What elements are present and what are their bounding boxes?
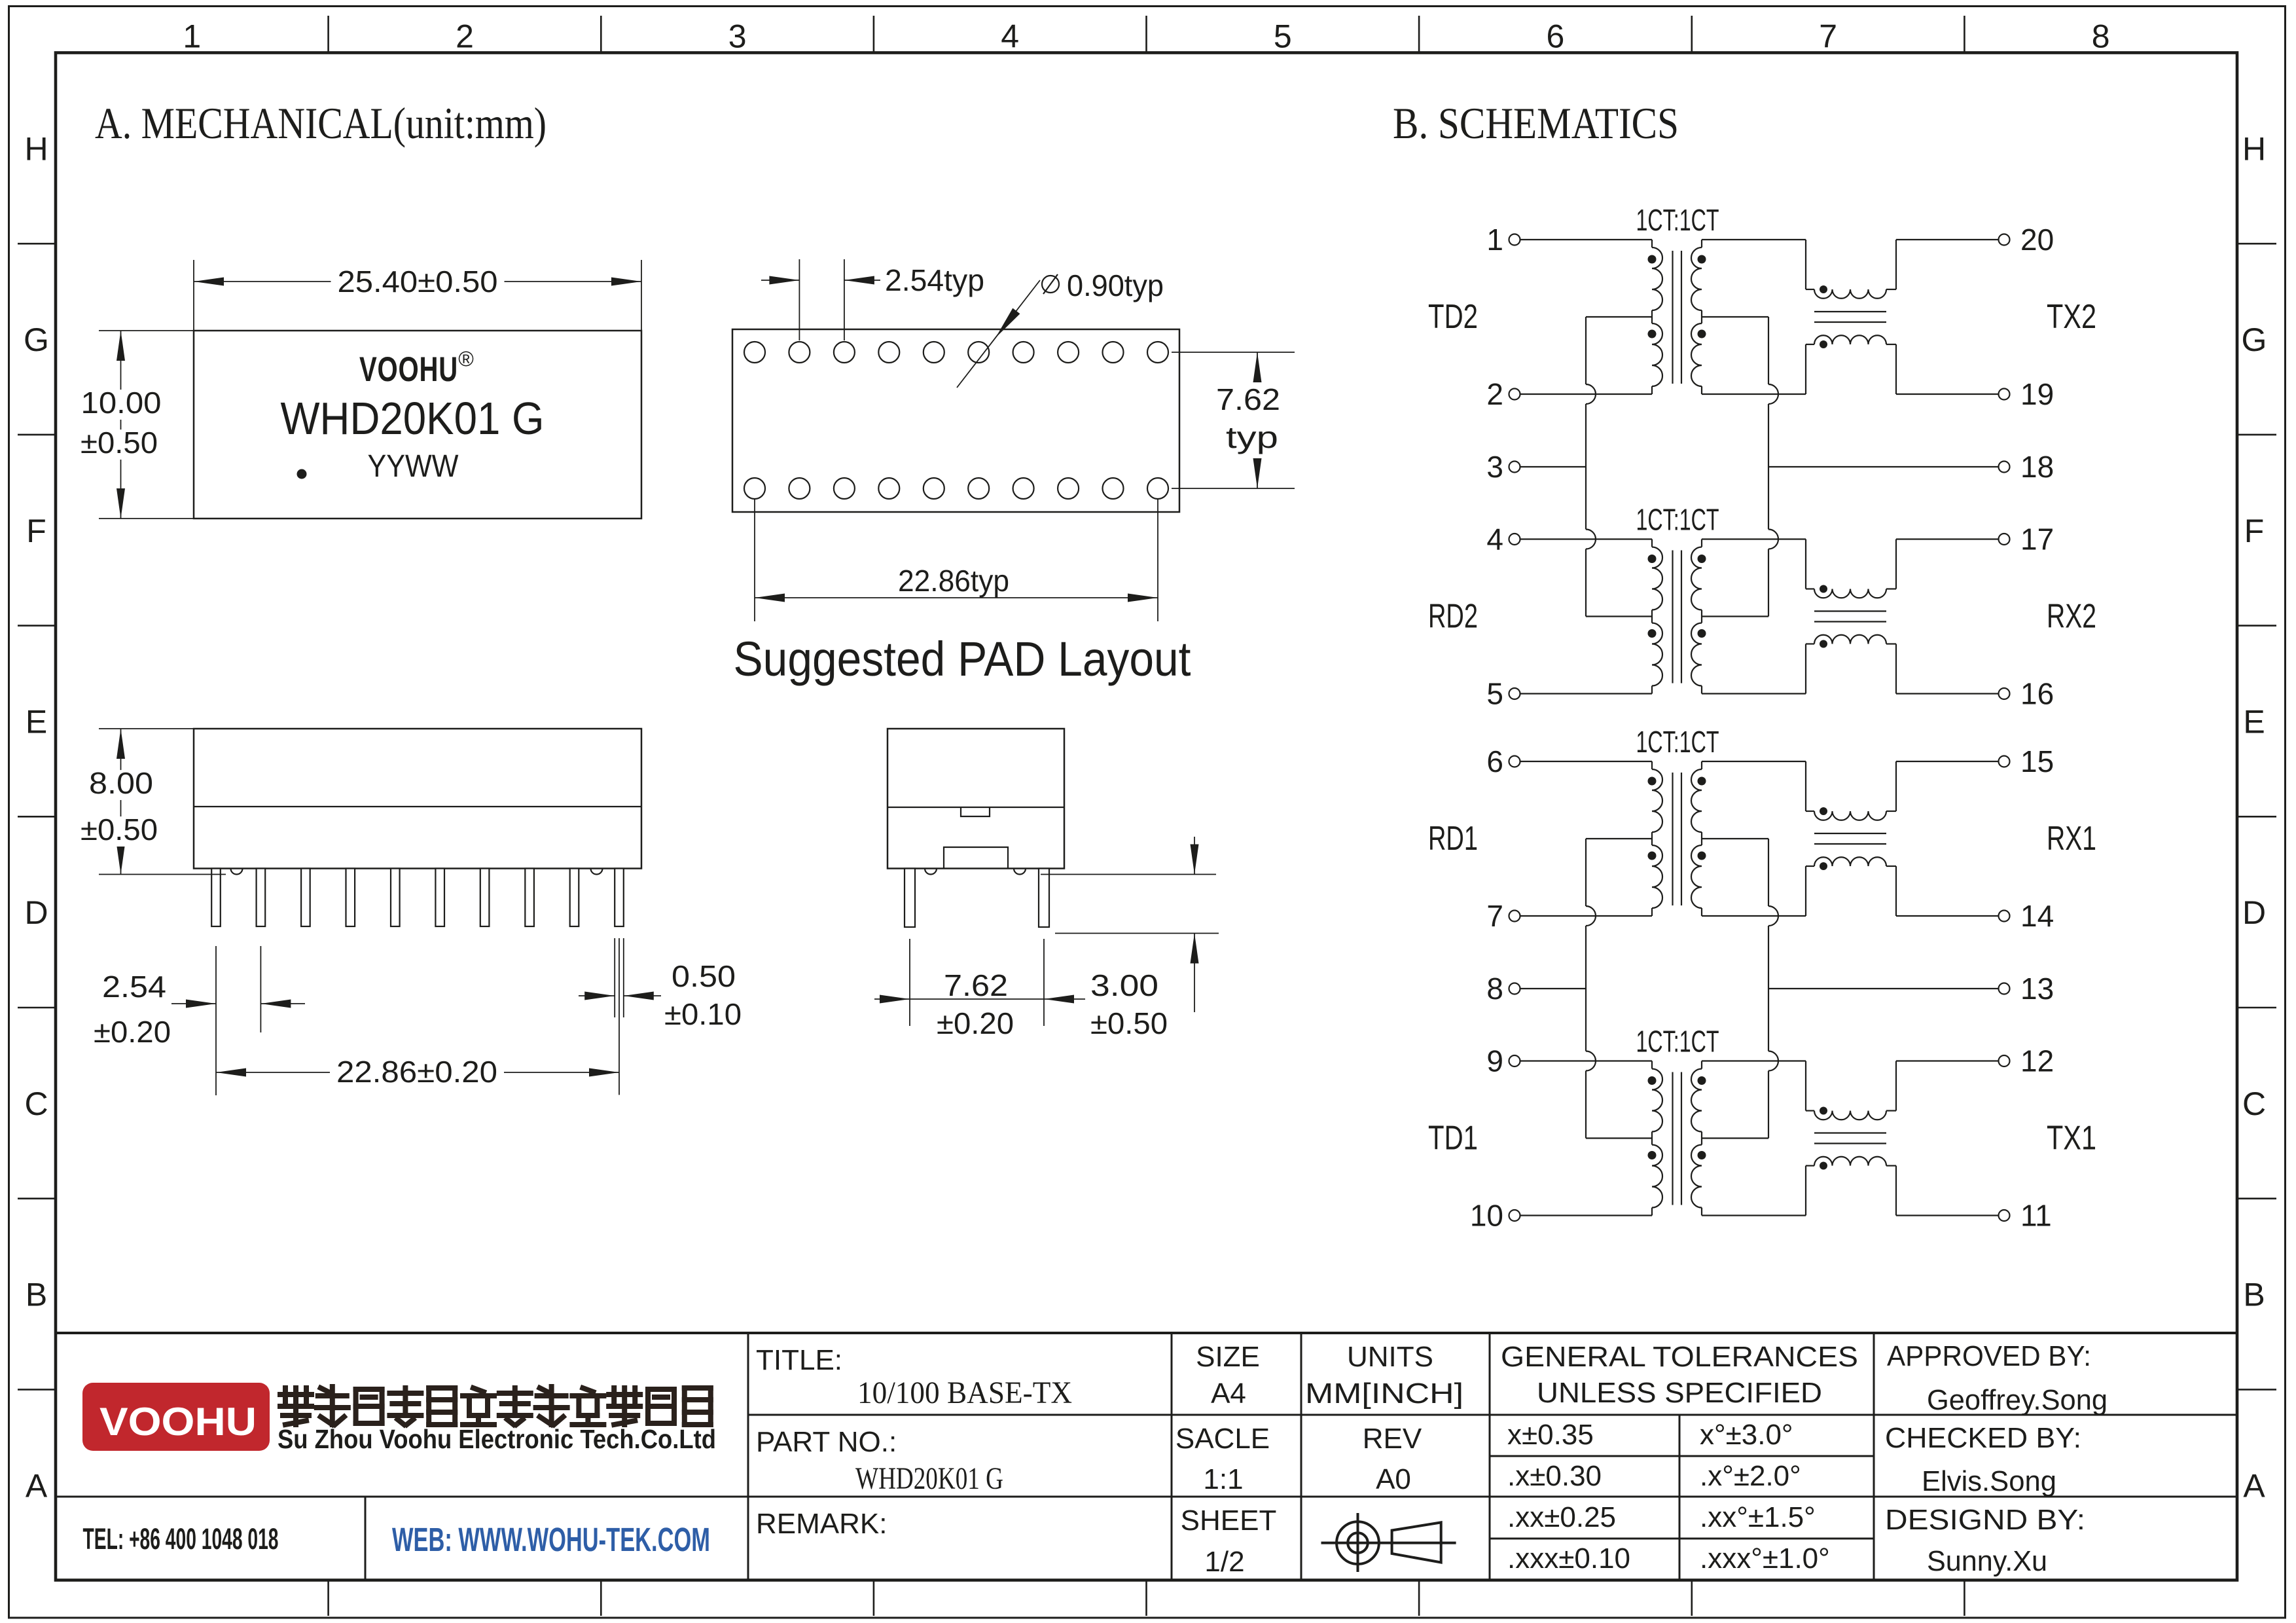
dimension 0.50±0.10 — [579, 995, 615, 996]
svg-text:Sunny.Xu: Sunny.Xu — [1927, 1545, 2047, 1577]
svg-text:0.50: 0.50 — [672, 959, 736, 993]
pin 12 terminal circle — [1999, 1055, 2010, 1067]
wire pin 10 to primary bottom — [1520, 1214, 1653, 1216]
choke core lines — [1814, 833, 1886, 834]
svg-text:G: G — [2242, 321, 2267, 358]
wire choke top to pin 20 — [1886, 289, 1896, 290]
pin 11 terminal circle — [1999, 1210, 2010, 1221]
end view standoff bump right — [1014, 869, 1026, 875]
svg-text:F: F — [2244, 513, 2265, 549]
svg-text:RX1: RX1 — [2047, 820, 2096, 858]
pad holes bottom row — [744, 478, 765, 499]
center-tap bus left (pins 3) — [1585, 317, 1587, 384]
polarity dots primary — [1648, 777, 1657, 786]
primary center tap wire — [1586, 838, 1652, 839]
svg-text:5: 5 — [1274, 18, 1292, 55]
svg-text:VOOHU: VOOHU — [99, 1400, 257, 1444]
secondary lower stub — [1701, 686, 1702, 694]
wire center-tap bus to pin 18 — [1768, 466, 1998, 467]
transformer core lines — [1672, 1072, 1673, 1205]
secondary center tap wire — [1702, 615, 1768, 617]
primary center tap wire — [1586, 615, 1652, 617]
svg-text:6: 6 — [1546, 18, 1564, 55]
svg-text:F: F — [26, 513, 46, 549]
primary winding upper coil of T-RD2 — [1651, 539, 1653, 547]
end view top latch notch — [961, 807, 990, 816]
svg-text:TD1: TD1 — [1428, 1120, 1478, 1158]
svg-text:RX2: RX2 — [2047, 598, 2096, 636]
choke polarity dots — [1820, 285, 1827, 293]
svg-text:REV: REV — [1363, 1423, 1422, 1455]
secondary winding lower coil of T-TD1 — [1691, 1145, 1702, 1208]
svg-text:A0: A0 — [1376, 1463, 1411, 1495]
svg-text:WEB: WWW.WOHU-TEK.COM: WEB: WWW.WOHU-TEK.COM — [392, 1521, 710, 1558]
dimension 2.54±0.20 extension lines — [215, 946, 217, 1095]
svg-text:10/100 BASE-TX: 10/100 BASE-TX — [857, 1376, 1072, 1410]
wire secondary bottom to choke — [1702, 693, 1806, 694]
zone row tick marks (right strip) — [2237, 243, 2276, 245]
svg-text:.xx°±1.5°: .xx°±1.5° — [1700, 1501, 1816, 1533]
pin 3 terminal circle — [1509, 462, 1520, 473]
end view pin near — [905, 869, 915, 928]
dimension 0.50±0.10 extension lines — [614, 938, 615, 1017]
svg-text:±0.20: ±0.20 — [94, 1015, 171, 1049]
dimension 7.62±0.20 — [874, 998, 1085, 1000]
svg-text:17: 17 — [2020, 522, 2054, 556]
side view standoff bump left — [231, 869, 243, 875]
wire pin 8 to center-tap bus — [1520, 988, 1586, 989]
secondary center tap wire — [1702, 838, 1768, 839]
pad holes top row — [744, 342, 765, 363]
pin 6 terminal circle — [1509, 756, 1520, 767]
center-tap bus left (pins 8) — [1585, 839, 1587, 906]
polarity dots secondary — [1698, 555, 1706, 563]
side view pins 1-10 — [211, 869, 221, 927]
TEL/WEB divider — [365, 1497, 367, 1580]
svg-text:.xxx±0.10: .xxx±0.10 — [1507, 1542, 1630, 1575]
svg-text:.xx±0.25: .xx±0.25 — [1507, 1501, 1616, 1533]
secondary winding lower coil of T-RD1 — [1691, 845, 1702, 908]
dimension text ±0.50 — [74, 429, 164, 460]
svg-text:10.00: 10.00 — [81, 386, 162, 420]
svg-text:PART NO.:: PART NO.: — [756, 1426, 897, 1458]
svg-text:MM[INCH]: MM[INCH] — [1305, 1377, 1463, 1410]
primary lower stub — [1651, 686, 1653, 694]
secondary center tap wire — [1702, 316, 1768, 318]
svg-text:1/2: 1/2 — [1204, 1546, 1244, 1578]
svg-text:A: A — [26, 1467, 48, 1504]
common-mode choke upper winding — [1814, 289, 1886, 299]
svg-text:1CT:1CT: 1CT:1CT — [1636, 203, 1719, 237]
svg-text:22.86typ: 22.86typ — [898, 564, 1009, 598]
wire secondary top to choke — [1702, 239, 1806, 240]
end view bottom recess — [944, 847, 1008, 869]
package top view outline — [194, 331, 641, 519]
svg-text:WHD20K01 G: WHD20K01 G — [281, 393, 545, 444]
choke polarity dots — [1820, 1107, 1827, 1115]
dimension text 25.40±0.50 — [331, 268, 505, 299]
pin 10 terminal circle — [1509, 1210, 1520, 1221]
svg-text:TEL: +86 400 1048 018: TEL: +86 400 1048 018 — [83, 1522, 279, 1556]
svg-text:SACLE: SACLE — [1175, 1423, 1270, 1455]
svg-text:7: 7 — [1819, 18, 1837, 55]
wire secondary bottom to choke — [1702, 393, 1806, 395]
wire secondary top to choke — [1702, 761, 1806, 762]
choke core lines — [1814, 1132, 1886, 1133]
wire pin 4 to primary top — [1520, 538, 1653, 539]
primary lower stub — [1651, 908, 1653, 916]
svg-text:3: 3 — [1486, 450, 1503, 484]
svg-text:VOOHU: VOOHU — [359, 350, 458, 389]
svg-text:3.00: 3.00 — [1090, 968, 1158, 1002]
secondary lower stub — [1701, 1208, 1702, 1216]
projection symbol crosshair — [1321, 1542, 1456, 1544]
svg-text:RD1: RD1 — [1428, 820, 1478, 858]
choke polarity dots — [1820, 807, 1827, 815]
dimension 2.54typ extension lines — [798, 259, 800, 340]
end view pin far — [1039, 869, 1049, 928]
svg-text:TD2: TD2 — [1428, 298, 1478, 336]
wire hop over pin wire at y=1620.5 (right) — [1768, 1051, 1778, 1071]
dimension text 22.86±0.20 — [330, 1059, 504, 1089]
svg-text:3: 3 — [728, 18, 747, 55]
wire hop over pin wire at y=823.5 — [1586, 530, 1596, 549]
secondary winding upper coil of T-TD1 — [1701, 1061, 1702, 1069]
zone column tick marks (top strip) — [327, 16, 329, 53]
secondary winding lower coil of T-RD2 — [1691, 623, 1702, 686]
svg-text:7.62: 7.62 — [1216, 382, 1280, 416]
pin 13 terminal circle — [1999, 983, 2010, 994]
end view parting line — [888, 807, 1064, 808]
common-mode choke lower winding — [1814, 857, 1886, 866]
svg-text:16: 16 — [2020, 677, 2054, 711]
svg-text:TITLE:: TITLE: — [756, 1344, 842, 1376]
svg-text:±0.50: ±0.50 — [81, 426, 158, 460]
common-mode choke upper winding — [1814, 1111, 1886, 1120]
wire choke bottom to pin 14 — [1886, 866, 1896, 867]
pin 5 terminal circle — [1509, 688, 1520, 699]
dimension 8.00±0.50 extension lines — [99, 728, 194, 729]
diameter symbol ∅ — [1042, 276, 1059, 293]
primary winding lower coil of T-TD1 — [1652, 1145, 1662, 1208]
secondary center connector — [1701, 310, 1702, 323]
common-mode choke lower winding — [1814, 335, 1886, 344]
pin 7 terminal circle — [1509, 911, 1520, 922]
wire choke bottom to pin 11 — [1886, 1165, 1896, 1166]
side view standoff bump right — [591, 869, 603, 875]
polarity dots primary — [1648, 555, 1657, 563]
svg-text:D: D — [24, 894, 48, 931]
svg-text:±0.10: ±0.10 — [664, 997, 742, 1031]
svg-text:1CT:1CT: 1CT:1CT — [1636, 503, 1719, 537]
svg-text:B: B — [26, 1277, 47, 1313]
wire hop over pin wire at y=1399.0 — [1586, 906, 1596, 926]
svg-text:4: 4 — [1486, 522, 1503, 556]
svg-text:C: C — [24, 1085, 48, 1122]
dimension 2.54typ — [761, 280, 799, 281]
primary center connector — [1651, 310, 1653, 323]
svg-text:YYWW: YYWW — [368, 449, 459, 484]
svg-text:A. MECHANICAL(unit:mm): A. MECHANICAL(unit:mm) — [95, 98, 547, 148]
choke core lines — [1814, 311, 1886, 312]
svg-text:B. SCHEMATICS: B. SCHEMATICS — [1393, 98, 1679, 148]
svg-text:2: 2 — [1486, 377, 1503, 411]
common-mode choke upper winding — [1814, 811, 1886, 820]
svg-text:x°±3.0°: x°±3.0° — [1700, 1419, 1793, 1451]
secondary lower stub — [1701, 386, 1702, 394]
svg-text:DESIGND BY:: DESIGND BY: — [1885, 1504, 2085, 1536]
secondary center connector — [1701, 832, 1702, 845]
side view body outline — [194, 729, 641, 869]
svg-text:®: ® — [458, 347, 474, 371]
pin 19 terminal circle — [1999, 389, 2010, 400]
svg-text:0.90typ: 0.90typ — [1067, 268, 1164, 302]
svg-text:22.86±0.20: 22.86±0.20 — [336, 1055, 497, 1089]
wire center-tap bus to pin 13 — [1768, 988, 1998, 989]
svg-text:±0.20: ±0.20 — [937, 1006, 1014, 1040]
transformer core lines — [1672, 251, 1673, 384]
svg-text:1: 1 — [183, 18, 201, 55]
primary winding upper coil of T-TD1 — [1651, 1061, 1653, 1069]
dimension text 10.00 — [75, 390, 168, 420]
svg-text:H: H — [24, 130, 48, 167]
svg-text:15: 15 — [2020, 744, 2054, 778]
dimension 2.54±0.20 — [171, 1003, 216, 1004]
svg-text:1: 1 — [1486, 223, 1503, 257]
pad layout outline — [732, 329, 1179, 512]
choke polarity dots — [1820, 585, 1827, 593]
choke core lines — [1814, 610, 1886, 611]
secondary winding upper coil of T-TD2 — [1701, 240, 1702, 247]
primary center connector — [1651, 1132, 1653, 1145]
svg-text:A4: A4 — [1211, 1377, 1246, 1410]
primary center connector — [1651, 832, 1653, 845]
secondary center connector — [1701, 1132, 1702, 1145]
svg-text:13: 13 — [2020, 972, 2054, 1006]
svg-text:E: E — [26, 704, 47, 740]
zone column tick marks (bottom strip) — [327, 1580, 329, 1616]
transformer core lines — [1672, 773, 1673, 905]
pin 1 terminal circle — [1509, 234, 1520, 246]
polarity dots primary — [1648, 255, 1657, 264]
wire choke top to pin 17 — [1886, 588, 1896, 589]
side view body parting line — [194, 806, 641, 807]
svg-text:7: 7 — [1486, 899, 1503, 933]
transformer core lines — [1672, 551, 1673, 684]
svg-text:7.62: 7.62 — [944, 968, 1008, 1002]
svg-text:SIZE: SIZE — [1196, 1341, 1260, 1373]
polarity dots secondary — [1698, 255, 1706, 264]
svg-text:11: 11 — [2020, 1199, 2052, 1233]
wire choke top to pin 12 — [1886, 1110, 1896, 1111]
svg-text:E: E — [2243, 704, 2265, 740]
wire pin 5 to primary bottom — [1520, 693, 1653, 694]
svg-text:8.00: 8.00 — [89, 766, 153, 800]
svg-text:10: 10 — [1470, 1199, 1503, 1233]
zone row tick marks (left strip) — [18, 243, 56, 245]
title block row line 2 — [56, 1496, 2237, 1498]
svg-text:Elvis.Song: Elvis.Song — [1922, 1465, 2056, 1497]
wire pin 2 to primary bottom — [1520, 393, 1653, 395]
pin 18 terminal circle — [1999, 462, 2010, 473]
title block row line 1 — [748, 1414, 2237, 1416]
common-mode choke lower winding — [1814, 1157, 1886, 1166]
common-mode choke upper winding — [1814, 589, 1886, 598]
primary center tap wire — [1586, 316, 1652, 318]
svg-text:Geoffrey.Song: Geoffrey.Song — [1927, 1384, 2108, 1416]
tolerance table sub-row lines — [1490, 1455, 1874, 1457]
VOOHU logo red box — [82, 1383, 270, 1451]
secondary winding lower coil of T-TD2 — [1691, 323, 1702, 386]
svg-text:WHD20K01 G: WHD20K01 G — [855, 1461, 1003, 1496]
polarity dots secondary — [1698, 777, 1706, 786]
secondary winding upper coil of T-RD1 — [1701, 761, 1702, 769]
svg-text:Suggested PAD Layout: Suggested PAD Layout — [734, 632, 1191, 686]
svg-text:APPROVED BY:: APPROVED BY: — [1887, 1340, 2091, 1372]
svg-text:Su Zhou Voohu Electronic Tech.: Su Zhou Voohu Electronic Tech.Co.Ltd — [278, 1424, 716, 1454]
wire choke bottom to pin 19 — [1886, 344, 1896, 345]
svg-text:4: 4 — [1001, 18, 1019, 55]
svg-text:SHEET: SHEET — [1181, 1504, 1277, 1537]
pin 2 terminal circle — [1509, 389, 1520, 400]
svg-text:x±0.35: x±0.35 — [1507, 1419, 1594, 1451]
svg-text:1:1: 1:1 — [1203, 1463, 1243, 1495]
svg-text:B: B — [2243, 1277, 2265, 1313]
secondary winding upper coil of T-RD2 — [1701, 539, 1702, 547]
polarity dots primary — [1648, 1076, 1657, 1085]
first-angle projection symbol: circles — [1336, 1522, 1379, 1564]
svg-text:UNITS: UNITS — [1347, 1341, 1433, 1373]
dimension 22.86±0.20 — [216, 1072, 619, 1073]
dimension 3.00±0.50 — [1194, 837, 1195, 875]
secondary center connector — [1701, 610, 1702, 623]
wire secondary top to choke — [1702, 538, 1806, 539]
wire choke top to pin 15 — [1886, 811, 1896, 812]
svg-text:C: C — [2242, 1085, 2266, 1122]
svg-text:2: 2 — [456, 18, 474, 55]
wire hop over pin wire at y=602.0 — [1586, 384, 1596, 404]
dimension 10.00±0.50 — [120, 331, 122, 519]
center-tap bus right (pin 18) — [1768, 317, 1769, 384]
dimension 7.62±0.20 pin center lines — [909, 939, 910, 1026]
title block top border — [56, 1332, 2237, 1334]
dimension text 8.00 — [82, 770, 160, 800]
dimension 7.62typ extension lines — [1172, 352, 1295, 353]
pin 1 indicator dot — [297, 469, 307, 479]
svg-text:H: H — [2242, 130, 2266, 167]
svg-text:G: G — [24, 321, 49, 358]
wire hop over pin wire at y=823.5 (right) — [1768, 530, 1778, 549]
wire pin 9 to primary top — [1520, 1060, 1653, 1061]
svg-text:25.40±0.50: 25.40±0.50 — [338, 264, 498, 299]
svg-text:12: 12 — [2020, 1044, 2054, 1078]
pin 20 terminal circle — [1999, 234, 2010, 246]
primary center connector — [1651, 610, 1653, 623]
svg-text:14: 14 — [2020, 899, 2054, 933]
svg-text:UNLESS SPECIFIED: UNLESS SPECIFIED — [1537, 1377, 1822, 1409]
primary winding lower coil of T-RD1 — [1652, 845, 1662, 908]
svg-text:±0.50: ±0.50 — [81, 812, 158, 847]
wire secondary top to choke — [1702, 1060, 1806, 1061]
primary winding upper coil of T-RD1 — [1651, 761, 1653, 769]
svg-text:9: 9 — [1486, 1044, 1503, 1078]
center-tap bus right (pin 13) — [1768, 839, 1769, 906]
svg-text:A: A — [2243, 1467, 2265, 1504]
pin 17 terminal circle — [1999, 534, 2010, 545]
leader arrowhead — [996, 308, 1020, 338]
svg-text:typ: typ — [1226, 420, 1278, 454]
svg-text:REMARK:: REMARK: — [756, 1508, 887, 1540]
svg-text:18: 18 — [2020, 450, 2054, 484]
secondary lower stub — [1701, 908, 1702, 916]
dimension 22.86typ — [755, 597, 1158, 598]
svg-text:2.54: 2.54 — [102, 970, 166, 1004]
dimension 10.00±0.50 extension lines — [99, 330, 194, 331]
svg-text:8: 8 — [2092, 18, 2110, 55]
pin 15 terminal circle — [1999, 756, 2010, 767]
svg-text:D: D — [2242, 894, 2266, 931]
svg-text:1CT:1CT: 1CT:1CT — [1636, 725, 1719, 759]
svg-text:5: 5 — [1486, 677, 1503, 711]
wire choke bottom to pin 16 — [1886, 643, 1896, 644]
wire hop over pin wire at y=602.0 (right) — [1768, 384, 1778, 404]
dimension 22.86typ extension lines — [754, 499, 755, 621]
title block verticals — [747, 1333, 749, 1580]
svg-text:TX1: TX1 — [2047, 1120, 2096, 1158]
company name (Chinese) pseudo glyphs — [280, 1388, 312, 1425]
primary winding lower coil of T-TD2 — [1652, 323, 1662, 386]
pin 16 terminal circle — [1999, 688, 2010, 699]
dimension 3.00±0.50 extension lines — [1041, 874, 1216, 875]
wire pin 1 to primary top — [1520, 239, 1653, 240]
dimension 8.00±0.50 — [120, 729, 122, 875]
svg-text:.x°±2.0°: .x°±2.0° — [1700, 1460, 1801, 1492]
primary lower stub — [1651, 1208, 1653, 1216]
pin 10 center line — [619, 938, 620, 1095]
wire pin 6 to primary top — [1520, 761, 1653, 762]
leader line for hole diameter — [957, 280, 1040, 388]
wire secondary bottom to choke — [1702, 1214, 1806, 1216]
wire secondary bottom to choke — [1702, 915, 1806, 917]
svg-text:20: 20 — [2020, 223, 2054, 257]
wire pin 3 to center-tap bus — [1520, 466, 1586, 467]
svg-text:8: 8 — [1486, 972, 1503, 1006]
pin 8 terminal circle — [1509, 983, 1520, 994]
svg-text:GENERAL TOLERANCES: GENERAL TOLERANCES — [1501, 1341, 1858, 1373]
primary lower stub — [1651, 386, 1653, 394]
svg-text:2.54typ: 2.54typ — [885, 263, 984, 297]
dimension 25.40±0.50 — [194, 281, 641, 282]
wire hop over pin wire at y=1620.5 — [1586, 1051, 1596, 1071]
svg-text:19: 19 — [2020, 377, 2054, 411]
svg-text:CHECKED BY:: CHECKED BY: — [1885, 1422, 2081, 1454]
projection symbol cone (side view) — [1392, 1522, 1441, 1562]
dimension 25.40±0.50 extension lines — [193, 260, 194, 331]
dimension text ±0.50 (height) — [74, 816, 164, 847]
svg-text:6: 6 — [1486, 744, 1503, 778]
wire hop over pin wire at y=1399.0 (right) — [1768, 906, 1778, 926]
primary winding upper coil of T-TD2 — [1651, 240, 1653, 247]
svg-text:1CT:1CT: 1CT:1CT — [1636, 1025, 1719, 1059]
primary winding lower coil of T-RD2 — [1652, 623, 1662, 686]
wire pin 7 to primary bottom — [1520, 915, 1653, 917]
pin 14 terminal circle — [1999, 911, 2010, 922]
secondary center tap wire — [1702, 1137, 1768, 1139]
svg-text:TX2: TX2 — [2047, 298, 2096, 336]
end view standoff bump left — [925, 869, 937, 875]
svg-text:±0.50: ±0.50 — [1090, 1006, 1168, 1040]
common-mode choke lower winding — [1814, 635, 1886, 644]
